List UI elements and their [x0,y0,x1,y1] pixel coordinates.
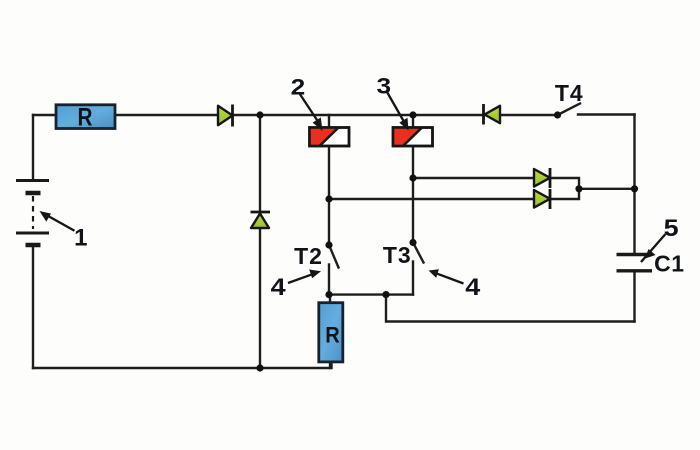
svg-text:C1: C1 [654,251,684,277]
svg-text:4: 4 [465,274,481,301]
svg-text:T4: T4 [555,80,584,106]
svg-text:5: 5 [664,215,679,242]
svg-text:3: 3 [377,73,392,98]
svg-text:4: 4 [271,274,287,301]
svg-text:R: R [325,322,340,347]
svg-text:T2: T2 [294,243,323,269]
svg-text:2: 2 [291,74,306,99]
svg-text:T3: T3 [383,242,412,268]
svg-text:R: R [78,104,93,132]
svg-text:1: 1 [74,224,87,251]
